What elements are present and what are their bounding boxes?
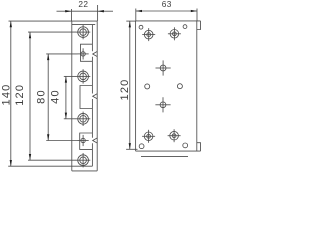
small hole H5 <box>78 135 89 146</box>
dim 40: dimension line <box>65 76 67 118</box>
dim 140: dimension line <box>10 21 12 166</box>
dim 22: extension lines <box>71 9 73 21</box>
left view: faceplate top edge + 140 extension line <box>9 20 98 22</box>
dim 80: dimension line <box>47 54 49 141</box>
right view: bottom-right side tab <box>197 143 201 151</box>
bottom latch cutout <box>80 133 93 149</box>
screw hole A (top-left, crosshair) <box>142 28 155 41</box>
top latch cutout <box>81 44 93 61</box>
screw hole H6 (countersunk, bottom) <box>76 153 90 167</box>
mounting hole bottom-left <box>139 144 144 149</box>
right view: plate left edge <box>135 21 137 151</box>
svg-text:80: 80 <box>36 89 48 104</box>
svg-text:120: 120 <box>14 84 26 106</box>
right view: plate bottom edge <box>136 150 201 152</box>
left view: faceplate top inner line <box>72 24 95 26</box>
dim 40: extension lines <box>64 75 76 77</box>
screw hole H4 (countersunk) <box>76 112 90 126</box>
screw hole H3 (countersunk) <box>76 69 90 83</box>
mounting hole mid-left <box>145 84 150 89</box>
svg-text:63: 63 <box>162 0 172 9</box>
svg-text:120: 120 <box>119 79 131 101</box>
dim 120 (left view): extension lines <box>28 31 76 33</box>
screw hole B (top-right, crosshair) <box>168 27 181 40</box>
dim 63: extension lines <box>135 9 137 21</box>
small hole H2 <box>78 48 89 59</box>
mounting hole top-right <box>183 25 187 29</box>
mounting hole bottom-right <box>183 143 188 148</box>
screw hole C (bottom-left, crosshair) <box>142 130 155 143</box>
dim 120 (right view): extension lines <box>126 20 135 22</box>
center hole F (crosshair) <box>155 97 170 112</box>
left view: faceplate bottom edge <box>72 170 97 172</box>
screw hole H1 (countersunk, top) <box>76 25 90 39</box>
left view: faceplate left edge <box>71 21 73 171</box>
chevron notch at H2 <box>93 52 97 57</box>
right view: bottom shadow line <box>141 155 188 157</box>
mounting hole mid-right <box>177 84 182 89</box>
middle latch cutout <box>80 86 92 109</box>
screw hole D (bottom-right, crosshair) <box>168 129 181 142</box>
svg-text:22: 22 <box>78 0 88 9</box>
right view: top-right side tab <box>197 21 201 30</box>
svg-text:40: 40 <box>50 89 62 104</box>
chevron notch at middle cutout <box>93 94 97 99</box>
center hole E (crosshair) <box>156 60 171 75</box>
dim 63: dimension line with inside arrows <box>136 10 197 12</box>
dim 120 (left view): dimension line <box>29 32 31 160</box>
left view: faceplate bottom inner line + 140 extension line <box>8 165 92 167</box>
dim 120 (right view): dimension line <box>129 21 131 149</box>
right view: plate right edge <box>196 21 198 151</box>
chevron notch at H5 <box>93 138 97 143</box>
dim 22: dimension line with outside arrows <box>57 10 72 12</box>
right view: plate top edge <box>136 20 201 22</box>
left view: faceplate right edge <box>96 21 98 171</box>
svg-text:140: 140 <box>0 84 12 106</box>
mounting hole top-left <box>139 25 143 29</box>
dim 80: extension lines <box>46 53 77 55</box>
left view: faceplate inner vertical fold line (with gaps at chevrons) <box>91 25 93 167</box>
